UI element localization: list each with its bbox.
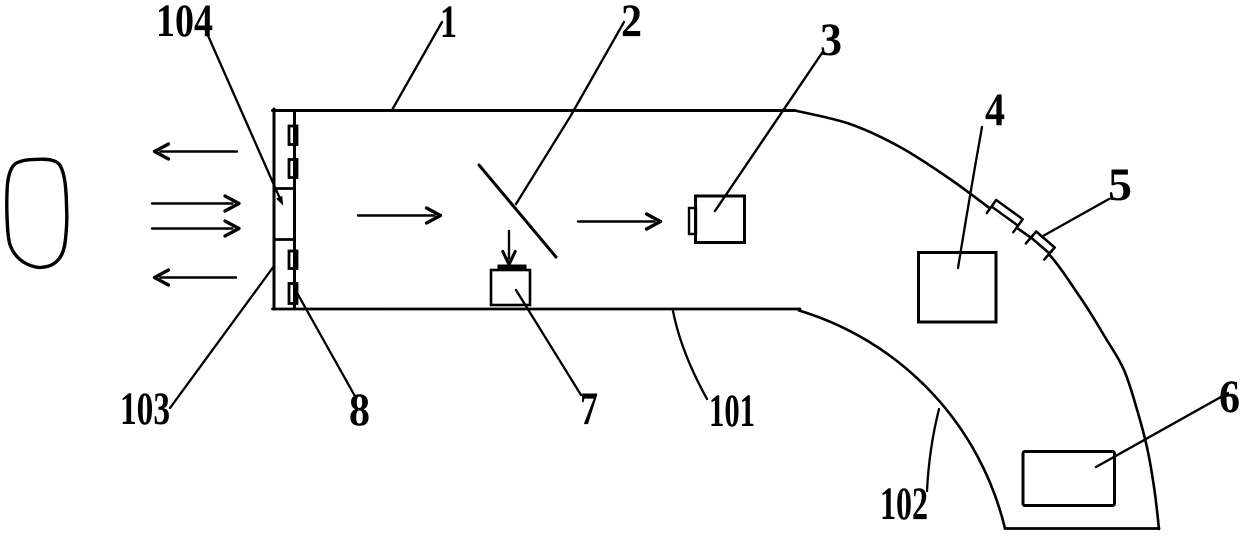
arrow in-tube 2 <box>578 220 655 222</box>
leader 1 <box>392 22 442 110</box>
end plate divider lower <box>274 238 295 241</box>
plate window square 2 <box>289 160 297 178</box>
svg-text:102: 102 <box>880 478 928 530</box>
plate window square 1 <box>289 126 297 145</box>
svg-text:2: 2 <box>621 0 642 47</box>
leader 5 <box>1043 199 1109 236</box>
svg-text:1: 1 <box>440 0 457 48</box>
housing 1: outer bend curve 101/102 wall <box>795 111 1159 530</box>
housing: bottom end cap line <box>1005 527 1159 530</box>
leader 101 <box>673 311 707 399</box>
leader 3 <box>715 53 822 211</box>
svg-text:3: 3 <box>820 14 842 66</box>
leader 103 <box>170 266 274 408</box>
box 4 <box>919 253 997 323</box>
leader 6 <box>1096 393 1228 467</box>
svg-text:101: 101 <box>709 385 755 437</box>
svg-text:7: 7 <box>580 383 598 435</box>
svg-text:4: 4 <box>985 84 1005 136</box>
detector box 3 left tab <box>689 208 696 234</box>
box 6 <box>1023 452 1115 506</box>
end plate 8: right edge <box>293 111 296 310</box>
detector box 3 <box>696 196 745 243</box>
leader 4 <box>958 127 982 268</box>
arrow right mid 2 <box>152 227 233 229</box>
svg-text:103: 103 <box>120 383 170 435</box>
leader 8 <box>296 291 356 398</box>
plate window square 3 <box>289 251 297 269</box>
window 5b on outer wall <box>1028 232 1054 257</box>
arrow left bottom <box>161 276 237 278</box>
arrow down to sensor 7 <box>508 231 510 259</box>
svg-text:104: 104 <box>156 0 213 47</box>
window 5a tick left <box>987 204 994 213</box>
arrow in-tube 1 <box>358 214 435 216</box>
svg-text:8: 8 <box>349 384 370 436</box>
arrow left top <box>161 150 238 152</box>
arrow right mid 1 <box>152 202 233 204</box>
housing: bottom edge <box>273 308 801 311</box>
leader 7 <box>516 290 581 395</box>
object blob (target being viewed) <box>7 159 67 267</box>
housing 1: top edge <box>273 109 796 112</box>
window 5b tick left <box>1026 235 1033 243</box>
sensor box 7 top strip <box>498 265 527 272</box>
window 5b tick right <box>1044 251 1051 259</box>
svg-text:6: 6 <box>1219 371 1240 423</box>
sensor box 7 <box>491 270 530 305</box>
leader 102 <box>927 409 939 491</box>
end plate 8: left edge (tube left cap) <box>273 109 276 309</box>
plate window square 4 <box>289 284 297 304</box>
leader 104 <box>206 31 280 198</box>
svg-text:5: 5 <box>1108 159 1132 211</box>
window 5a tick right <box>1013 223 1020 232</box>
end plate divider upper <box>274 187 295 190</box>
beam splitter 2 <box>479 165 556 257</box>
leader 2 <box>516 22 624 204</box>
window 5a on outer wall <box>989 200 1023 229</box>
housing: inner bend curve <box>799 311 1005 529</box>
